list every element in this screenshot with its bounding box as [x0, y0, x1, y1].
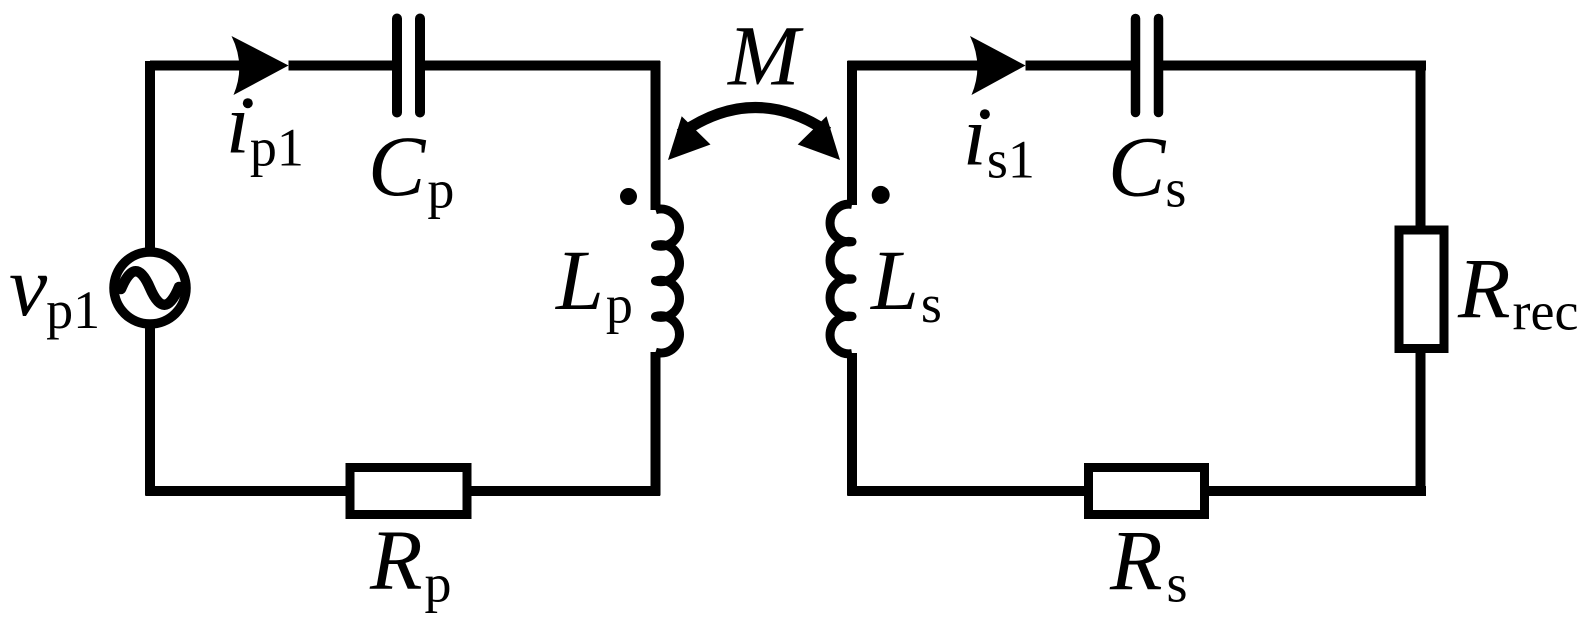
- wire: right loop bottom, corner to Rs: [848, 486, 1086, 496]
- wire: right loop right vertical lower (below Rrec): [1416, 352, 1426, 496]
- wire: right loop left vertical lower (below Ls): [847, 353, 857, 496]
- source vp1 circle: [114, 252, 186, 324]
- wire: right loop left vertical upper (above Ls): [847, 61, 857, 205]
- current arrow is1: [970, 36, 1026, 95]
- svg-text:M: M: [726, 8, 804, 104]
- wire: right loop top, arrow tip to Cs left plate: [1026, 61, 1132, 71]
- wire: left loop right vertical upper (above Lp): [651, 61, 661, 210]
- resistor Rrec box: [1399, 230, 1444, 349]
- wire: left loop bottom, source to Rp: [146, 486, 348, 496]
- polarity dot near Lp: [620, 188, 637, 205]
- phasor dot of is1: [980, 109, 990, 119]
- wire: left loop bottom, Rp to corner: [470, 486, 660, 496]
- wire: left loop top, Cp right plate to corner: [425, 61, 660, 71]
- capacitor Cs right plate: [1154, 19, 1164, 113]
- inductor Lp coil: [656, 209, 680, 353]
- wire: right loop top, corner to Cs left plate: [848, 61, 982, 71]
- wire: left loop top, arrow tip to Cp left plate: [289, 61, 393, 71]
- source vp1 sine wave: [121, 271, 179, 305]
- wire: left loop left vertical lower: [145, 323, 155, 496]
- resistor Rs box: [1089, 468, 1205, 515]
- wire: left loop left vertical upper: [145, 61, 155, 253]
- resistor Rp box: [350, 468, 467, 515]
- coupling arc left arrowhead: [668, 116, 711, 160]
- wire: right loop right vertical upper (above Rrec): [1416, 61, 1426, 226]
- mutual coupling arc M: [680, 107, 828, 134]
- polarity dot near Ls: [872, 186, 890, 204]
- capacitor Cp right plate: [415, 19, 425, 113]
- wire: right loop bottom, Rs to corner: [1208, 486, 1426, 496]
- wire: left loop right vertical lower (below Lp): [651, 352, 661, 496]
- capacitor Cs left plate: [1131, 19, 1141, 113]
- capacitor Cp left plate: [392, 19, 402, 113]
- inductor Ls coil: [830, 204, 852, 354]
- wire: left loop top, source to Cp left plate: [150, 61, 243, 71]
- wire: right loop top, Cs right plate to corner: [1163, 61, 1426, 71]
- phasor dot of ip1: [243, 98, 253, 108]
- current arrow ip1: [232, 36, 289, 95]
- coupling arc right arrowhead: [798, 116, 840, 160]
